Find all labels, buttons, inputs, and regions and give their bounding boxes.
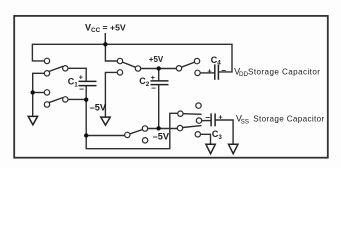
wire S4 upper contact to -5V node to S7 common	[145, 128, 178, 130]
node +5V	[157, 66, 161, 70]
svg-text:+5V: +5V	[149, 55, 164, 64]
wire S7 contact to ground g3	[198, 134, 211, 144]
contact S3 common	[63, 97, 68, 102]
ground g3	[206, 144, 215, 153]
contact S4 common	[125, 132, 130, 137]
svg-text:–: –	[205, 112, 210, 122]
wire C1 bottom to S6 common (via bottom run)	[86, 86, 180, 149]
node bottom-left junction	[84, 133, 88, 137]
lever S4	[130, 130, 143, 134]
wire -5V bottom node to S4 common	[86, 135, 125, 137]
svg-text:C1: C1	[68, 76, 79, 88]
svg-text:C4: C4	[211, 55, 222, 67]
wire S2 lower contact to ground	[105, 72, 120, 117]
contact S5 common	[176, 66, 181, 71]
wire S1 lower contact to ground rail	[33, 73, 47, 116]
wire C2 top lead	[158, 69, 160, 81]
svg-text:–: –	[221, 65, 226, 75]
svg-text:C3: C3	[212, 129, 223, 141]
node -5V (C1 bottom)	[84, 98, 88, 102]
contact S7 lower	[195, 132, 200, 137]
wire VCC dot to S2 upper contact	[105, 44, 120, 61]
node -5V (C2 bottom)	[156, 126, 160, 130]
svg-text:VDDStorage Capacitor: VDDStorage Capacitor	[234, 66, 320, 78]
contact S1 lower	[44, 71, 49, 76]
svg-text:+: +	[151, 73, 156, 82]
svg-text:–: –	[151, 82, 156, 92]
lever S3	[49, 98, 63, 103]
switch contact circles	[44, 58, 201, 143]
contact S1 common	[63, 66, 68, 71]
contact S2 upper	[117, 58, 122, 63]
svg-text:+: +	[79, 72, 84, 81]
contact S3 upper	[44, 90, 49, 95]
wire top VCC rail	[32, 44, 232, 72]
wire VCC stub	[104, 33, 106, 44]
contact S2 common	[135, 66, 140, 71]
contact S5 lower	[195, 70, 200, 75]
contact S5 upper open	[194, 58, 199, 63]
ground g4	[229, 144, 238, 153]
lever S5	[181, 62, 194, 67]
contact S4 lower open	[142, 138, 147, 143]
lever S6	[183, 113, 202, 116]
ground g2	[101, 117, 110, 125]
capacitor C2 plates	[151, 81, 169, 85]
lever S1	[49, 66, 63, 71]
junction dots	[31, 42, 161, 138]
wire S3 common to -5V node	[65, 98, 86, 100]
svg-text:–5V: –5V	[153, 132, 170, 142]
contact S3 lower	[44, 102, 49, 107]
contact S4 upper	[142, 126, 147, 131]
contact S6 upper open	[196, 103, 201, 108]
lever S2	[122, 62, 135, 67]
contact S1 upper	[44, 58, 49, 63]
border frame	[14, 16, 328, 158]
contact S2 lower	[117, 70, 122, 75]
ground g1	[28, 116, 37, 124]
wire C3 left plate to S6 contact	[199, 120, 211, 122]
wire S3 upper contact	[33, 92, 47, 94]
svg-text:–: –	[79, 84, 84, 94]
svg-text:–5V: –5V	[90, 102, 107, 112]
wire S1 common to C1 top	[65, 68, 86, 81]
wire S2 common to +5V node to S5 common	[138, 68, 179, 70]
lever S7	[183, 126, 202, 128]
wire C3 right plate to VSS down to ground	[215, 120, 233, 144]
svg-text:C2: C2	[139, 76, 150, 88]
capacitor C1 plates	[79, 81, 97, 85]
svg-text:VSSStorage Capacitor: VSSStorage Capacitor	[236, 114, 325, 126]
node VCC rail junction	[103, 42, 107, 46]
contact S7 common	[177, 125, 182, 130]
wire S5 lower contact to C4 left plate	[200, 72, 215, 74]
node left ground rail junction	[31, 90, 35, 94]
contact S6 common	[178, 111, 183, 116]
wire C2 bottom lead	[158, 85, 160, 129]
contact S6 lower	[196, 118, 201, 123]
capacitor C3 plates	[211, 113, 215, 126]
svg-text:VCC = +5V: VCC = +5V	[85, 22, 126, 33]
svg-text:+: +	[218, 112, 223, 121]
capacitor C4 plates	[215, 64, 219, 79]
svg-text:+: +	[207, 67, 212, 76]
